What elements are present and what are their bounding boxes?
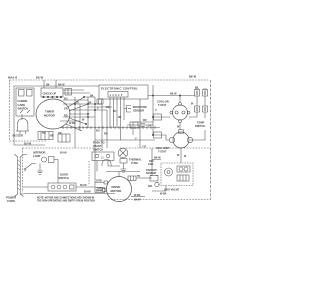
wire label BU-W [24,142,32,146]
svg-text:THE NON-OPERATING AND EMPTY: THE NON-OPERATING AND EMPTY-DRUM POSITIO… [37,200,95,203]
svg-text:BU: BU [64,97,68,100]
svg-text:BK: BK [90,94,94,97]
svg-text:BUZZER: BUZZER [13,134,24,138]
svg-text:THERMAL: THERMAL [129,158,142,162]
svg-text:BK-W: BK-W [36,76,44,80]
switch S4 lamp door switch [24,164,40,172]
timer contact block T1 [41,88,63,98]
wire: console bottom dashed [10,140,47,142]
wire: lower cabinet top dashed [23,147,211,149]
svg-text:TB: TB [137,176,140,178]
wire: gas valve leads [152,157,167,196]
sensor RS radiant sensor [146,169,158,181]
switch S5 door switch [48,173,76,192]
ground G1 motor frame [121,163,127,172]
connector P3 plugs second row [191,96,208,112]
svg-text:BK-W: BK-W [189,75,197,79]
wire: EC right lead to plugs [148,93,195,97]
wire: fabric switch to buzzer [21,114,23,120]
wire: rail down from border x153 [152,85,154,135]
svg-text:BK: BK [195,88,199,90]
svg-text:BU-W: BU-W [24,142,32,146]
svg-text:SWITCH: SWITCH [59,176,69,180]
node label MAJ-9 top left [8,76,17,80]
svg-text:V: V [155,109,157,112]
wire label BK-W top left [36,76,44,80]
svg-text:S-RD: S-RD [96,180,102,183]
svg-text:W-BK: W-BK [160,193,167,196]
wire: border to door switch [23,186,48,188]
wire: lower cabinet left dashed [22,148,24,192]
svg-text:MOTOR: MOTOR [44,114,56,118]
svg-text:W: W [177,154,180,157]
wire labels under timer [42,132,62,138]
svg-text:MOTOR: MOTOR [111,189,123,193]
fuse F1 thermal fuse [120,158,142,166]
switch S3 push to start [89,141,120,186]
svg-text:SENSOR: SENSOR [146,172,156,175]
valve V1 gas valve assembly [161,163,193,192]
svg-text:BU-W: BU-W [84,191,91,194]
wire: timer cam leader lines [66,96,89,131]
svg-text:SWITCH: SWITCH [93,148,103,152]
svg-text:RD: RD [64,114,68,117]
switch S6 small aux contact [65,89,72,96]
svg-text:12345: 12345 [110,94,124,97]
wire: TS1 top feed [179,96,181,103]
wire: RD lead to rail [133,119,153,122]
wire: drive motor left wires [95,180,104,191]
svg-text:W: W [184,155,187,158]
svg-text:BU: BU [113,111,117,113]
svg-text:SWITCH: SWITCH [18,107,29,111]
svg-text:POWER: POWER [6,196,16,200]
svg-text:GN-W: GN-W [96,190,103,193]
svg-text:IGN: IGN [148,185,153,188]
wire: door switch to mesh rail [76,184,95,187]
connector block CN2 lower console [38,132,53,140]
svg-text:MAJ-9: MAJ-9 [8,76,17,80]
wire: timer block right leads [63,90,90,93]
svg-text:L1: L1 [101,158,104,160]
ground G2 lamp ground [37,171,43,174]
svg-text:SWITCH: SWITCH [195,124,205,128]
electronic control U1 [99,85,148,99]
sensor MS moisture sensor [124,105,147,113]
svg-text:T-STAT: T-STAT [158,151,167,154]
thermostat TS2 high limit [156,130,193,154]
svg-text:BU-W: BU-W [80,184,87,187]
svg-text:START: START [93,144,102,148]
svg-text:FABRIC: FABRIC [18,99,28,103]
svg-text:BU-W: BU-W [60,152,67,155]
svg-text:W: W [82,119,85,122]
note text bottom [37,197,95,203]
svg-text:RD: RD [104,132,108,135]
svg-text:PUSH TO: PUSH TO [93,141,104,145]
svg-text:BK-W: BK-W [154,157,161,160]
wire labels mesh [64,94,187,158]
connector block CN3 below timer [58,134,70,142]
motor M2 drive motor [107,177,132,202]
connector P2 EC left plug [88,99,103,105]
switch S1 fabric care switch [16,88,34,116]
lamp L1 interior lamp [33,151,58,184]
svg-text:W-BK: W-BK [69,122,76,125]
wire label BK-W top right [189,75,197,79]
svg-text:BK: BK [46,84,50,87]
svg-text:SENSOR: SENSOR [133,109,144,113]
connector P1 plugs top right row [195,88,208,97]
svg-text:INTERIOR: INTERIOR [33,151,46,155]
svg-text:DOOR: DOOR [60,173,68,177]
wire: rail into gas valve area [150,148,152,176]
svg-text:OR: OR [106,107,110,109]
svg-text:TH: TH [76,101,79,104]
wire: over motor [106,172,140,177]
svg-text:BK-W: BK-W [58,84,65,87]
connector CN1 strip console/cabinet [60,126,160,129]
thermostat TS1 cool down thermostat [157,101,190,123]
svg-text:BK-W: BK-W [134,199,141,202]
resistor R1 with lead to TS1 [152,114,170,120]
terminal drive motor leads [103,181,108,192]
wire labels under EC [106,107,122,119]
relay K1 start winding circle [118,148,128,158]
svg-text:FUSE: FUSE [131,161,138,165]
wire: cabinet top dashed border L1 [10,79,209,81]
power cord W1 [6,154,33,203]
buzzer BZ1 [13,119,30,138]
svg-text:Y-R: Y-R [142,145,146,148]
svg-text:W: W [177,126,180,129]
svg-text:BK-W: BK-W [170,93,177,96]
resistor R2 with lead to TS2 [152,132,169,140]
wire: TS1-TS2 link [177,123,181,164]
svg-text:T-STAT: T-STAT [158,104,167,107]
wire: EC pin drops to connector strip [110,97,124,140]
svg-text:OR: OR [64,107,68,110]
svg-text:RD: RD [143,119,147,122]
svg-text:COIL: COIL [148,163,154,166]
svg-text:CARE: CARE [18,103,26,107]
svg-text:GAS VALVE: GAS VALVE [164,188,179,192]
coil label SEC [148,160,154,166]
wire: feeds from top border into timer block [44,80,65,88]
wire mesh center console-to-cabinet [60,97,112,187]
svg-text:ELECTRONIC CONTROL: ELECTRONIC CONTROL [101,87,138,91]
console inner solid box [14,86,99,145]
wire: cabinet left dashed border [9,80,11,141]
resistor R3 mid pair [127,122,153,128]
wire: cabinet right border [210,80,212,200]
wire: mid verticals to cabinet [95,99,155,148]
wire: drive motor right bottom lead [131,194,145,202]
svg-text:NOTE: MOTOR AND CONNECTIONS: NOTE: MOTOR AND CONNECTIONS ARE SHOWN IN [37,197,95,200]
svg-text:W-BK: W-BK [134,194,141,197]
terminal TB motor terminal block [128,176,152,181]
svg-text:TEMP: TEMP [197,121,204,125]
svg-text:LAMP: LAMP [33,154,41,158]
wire: cabinet bottom dashed border [108,199,211,201]
svg-text:CHECK UP: CHECK UP [43,92,57,96]
switch S2 temp switch label [195,121,205,129]
ignitor IG1 [148,182,159,188]
svg-text:CORD: CORD [7,199,15,203]
svg-text:W: W [191,104,194,106]
svg-text:RD: RD [118,117,122,119]
svg-text:MOISTURE: MOISTURE [133,105,147,109]
wire: neutral run along bottom [33,188,115,194]
motor M1 timer motor [36,99,70,129]
wire: plug drops to thermostats [189,112,205,140]
svg-text:BU: BU [96,129,100,132]
wire label BU-W lower [60,152,67,155]
svg-text:OR: OR [58,132,62,135]
